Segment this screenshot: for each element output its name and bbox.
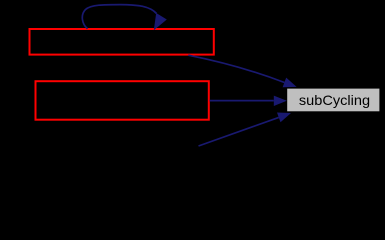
edge box1 -> subCycling arrowhead	[283, 78, 297, 88]
edge hidden node -> subCycling: wire	[199, 117, 279, 146]
edge self-loop on box1: wire arc	[82, 5, 156, 29]
edge box2 -> subCycling arrowhead	[274, 96, 287, 106]
edge box1 -> subCycling: wire	[188, 55, 284, 82]
edge hidden node -> subCycling arrowhead	[277, 113, 291, 123]
edge box2 -> subCycling: wire	[210, 100, 274, 102]
node subCycling (current node, grey fill)	[287, 89, 379, 112]
node box2 (red-bordered caller, label hidden on black)	[36, 81, 209, 120]
node box1 (red-bordered caller, label hidden on black)	[30, 29, 214, 55]
svg-text:subCycling: subCycling	[299, 92, 370, 108]
edge self-loop arrowhead	[154, 13, 167, 30]
